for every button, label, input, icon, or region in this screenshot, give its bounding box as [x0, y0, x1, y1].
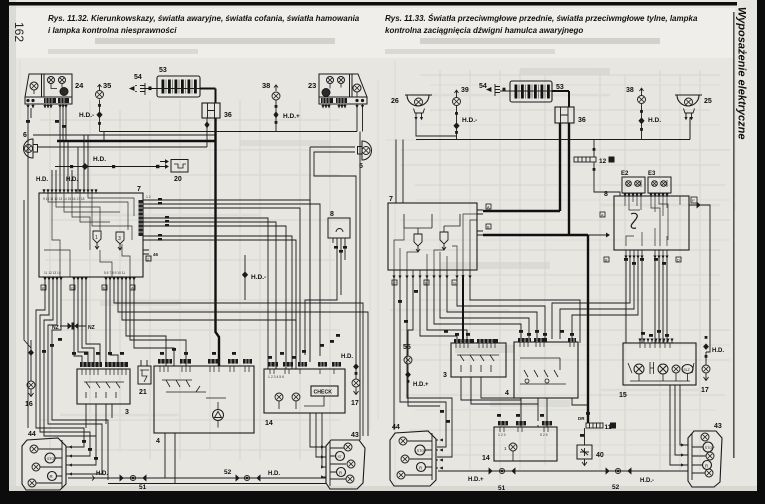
- svg-text:8: 8: [330, 211, 334, 218]
- relay 36: [202, 103, 232, 119]
- connector 54: [479, 83, 506, 96]
- lamp cluster 24: [25, 74, 84, 108]
- svg-text:12: 12: [599, 158, 607, 165]
- wire 23 drops: [357, 108, 363, 132]
- wire lamp5 feed: [310, 147, 356, 362]
- svg-text:1 2 3 4 5 6: 1 2 3 4 5 6: [268, 375, 284, 379]
- svg-text:53: 53: [556, 84, 564, 91]
- svg-text:H.D.: H.D.: [96, 471, 108, 477]
- svg-text:STOP: STOP: [705, 446, 715, 450]
- svg-text:E3: E3: [648, 171, 656, 177]
- svg-text:14: 14: [482, 455, 490, 462]
- svg-text:55: 55: [403, 344, 411, 351]
- control box 7: [388, 196, 483, 275]
- wires unit4/14 bottom to bus: [165, 132, 360, 484]
- wires into unit 7 top pins: [52, 135, 88, 193]
- instrument panel 15: [619, 339, 696, 399]
- svg-text:Wyposażenie elektryczne: Wyposażenie elektryczne: [736, 7, 748, 139]
- svg-text:16: 16: [25, 401, 33, 408]
- svg-text:21: 21: [139, 389, 147, 396]
- unit 14: [264, 362, 345, 427]
- svg-text:H.D.+: H.D.+: [283, 113, 300, 120]
- fog lamp 25: [675, 95, 712, 117]
- bulb 17: [701, 336, 724, 394]
- svg-text:17: 17: [351, 400, 359, 407]
- svg-text:R: R: [705, 464, 708, 469]
- wires bus to box 7 top: [396, 140, 403, 204]
- svg-text:39: 39: [461, 87, 469, 94]
- page frame: top rule: [9, 2, 737, 6]
- code boxes near 7 pins: [392, 204, 681, 285]
- wire 24 right drops: [60, 108, 66, 141]
- svg-text:25: 25: [704, 98, 712, 105]
- svg-text:G: G: [453, 281, 456, 285]
- svg-text:43: 43: [351, 432, 359, 439]
- wire fuse to relay (thick): [200, 89, 216, 104]
- svg-text:2: 2: [147, 258, 149, 262]
- thick wire into 3: [462, 275, 464, 343]
- svg-text:H.D.+: H.D.+: [468, 477, 484, 483]
- svg-text:R: R: [419, 466, 422, 471]
- svg-text:CHECK: CHECK: [314, 390, 333, 396]
- svg-text:SLZ: SLZ: [684, 368, 690, 372]
- svg-text:H.D.: H.D.: [648, 117, 661, 124]
- fog switch 3: [443, 339, 547, 404]
- thick feeds down from relay: [559, 123, 561, 211]
- svg-text:4: 4: [156, 438, 160, 445]
- H.D. labels row: [36, 177, 78, 183]
- bulb 17: [341, 354, 360, 407]
- 39/26 stems and H.D.: [416, 106, 477, 140]
- sidebar rule: [733, 12, 735, 458]
- NZ inline connector: [52, 323, 95, 332]
- wire 8 right out: [689, 197, 710, 352]
- wire 24 left drop: [28, 108, 31, 135]
- svg-text:14: 14: [265, 420, 273, 427]
- box 8 drop wires: [305, 243, 347, 355]
- thick feed wire down from relay: [216, 118, 220, 366]
- bulb 55: [403, 344, 440, 406]
- svg-text:3: 3: [443, 372, 447, 379]
- svg-text:44: 44: [392, 424, 400, 431]
- thick bus: [57, 140, 215, 142]
- wire code marks on fan: [158, 198, 169, 241]
- bulb 35: [96, 81, 112, 99]
- wires 7 bottom fan: [394, 275, 580, 457]
- wire 35 stem: [79, 100, 102, 132]
- wire fuse to relay (thick): [552, 91, 569, 107]
- ground 51: [92, 471, 147, 491]
- ground 52: [224, 469, 280, 481]
- unit 7 bottom-left fan to cluster 44: [36, 282, 108, 480]
- edge shading: [9, 0, 16, 504]
- svg-text:52: 52: [612, 484, 620, 491]
- svg-text:7: 7: [389, 196, 393, 203]
- ground 52: [606, 468, 654, 491]
- page frame: left black bar: [0, 0, 9, 504]
- left outer verticals: [24, 135, 31, 428]
- fan wires from unit 7 right connector: [152, 200, 320, 369]
- rear lamp cluster 43: [686, 423, 722, 487]
- svg-text:40: 40: [596, 452, 604, 459]
- svg-text:17: 17: [701, 387, 709, 394]
- switch symbol inside 7 (left): [404, 214, 432, 252]
- svg-text:20: 20: [174, 176, 182, 183]
- svg-text:H.D.: H.D.: [268, 471, 280, 477]
- svg-text:53: 53: [159, 67, 167, 74]
- wire link: [103, 132, 105, 142]
- svg-text:ST: ST: [338, 455, 342, 459]
- svg-text:E2: E2: [621, 171, 629, 177]
- svg-text:54: 54: [134, 74, 142, 81]
- fuse box 53: [500, 81, 564, 102]
- unit 14: [482, 421, 557, 462]
- svg-text:Rys. 11.32. Kierunkowskazy, św: Rys. 11.32. Kierunkowskazy, światła awar…: [48, 14, 360, 23]
- switch 3: [77, 362, 130, 436]
- svg-text:NZ: NZ: [52, 325, 59, 331]
- rear lamp cluster 44: [390, 424, 438, 486]
- page frame: right black bar: [757, 0, 765, 504]
- svg-text:H.D.-: H.D.-: [79, 112, 94, 119]
- top bus: [416, 113, 690, 140]
- switch symbol inside 7 (right): [440, 214, 460, 250]
- wires 15 bottom to 43: [670, 385, 686, 465]
- svg-text:15: 15: [619, 392, 627, 399]
- svg-text:43: 43: [714, 423, 722, 430]
- pin arrow marks right diagram: [392, 117, 693, 470]
- svg-text:54: 54: [479, 83, 487, 90]
- svg-text:H.D.: H.D.: [712, 348, 724, 354]
- connector 54: [130, 74, 152, 95]
- letter code boxes below unit 7: [41, 285, 135, 290]
- svg-text:11: 11: [605, 424, 612, 431]
- bulb 16: [25, 340, 35, 408]
- thick wires 7 to relay/8: [483, 210, 560, 212]
- svg-text:7: 7: [137, 186, 141, 193]
- wire lamp6 feed: [38, 147, 208, 193]
- svg-text:1: 1: [95, 235, 98, 241]
- svg-text:38: 38: [626, 87, 634, 94]
- box 20: [152, 160, 188, 184]
- bulb 38: [626, 87, 646, 104]
- wire bus2: [33, 134, 215, 136]
- svg-text:STOP: STOP: [47, 457, 57, 461]
- relay E3: [648, 171, 671, 197]
- unit 7 right interior wiring: [394, 214, 477, 270]
- svg-text:5 6 7 8 9 10 11: 5 6 7 8 9 10 11: [104, 271, 125, 275]
- unit 7 right connector pins: [143, 195, 159, 262]
- svg-text:DR: DR: [578, 416, 585, 421]
- bulb 38: [262, 81, 280, 100]
- svg-text:44: 44: [28, 431, 36, 438]
- svg-text:H.D.-: H.D.-: [640, 478, 654, 484]
- box 8: [328, 211, 350, 243]
- wires 8 bottom fan: [552, 255, 667, 343]
- svg-text:kontrolna zaciągnięcia dźwigni: kontrolna zaciągnięcia dźwigni hamulca a…: [385, 26, 583, 35]
- box 21: [138, 360, 151, 396]
- svg-text:NZ: NZ: [88, 325, 95, 331]
- svg-text:D: D: [677, 258, 680, 262]
- unit 7 bottom-mid fan to switch 3: [74, 282, 100, 362]
- relay thin drop with H.D. dot: [205, 118, 209, 147]
- switch unit 4: [505, 338, 578, 398]
- pin arrow marks left diagram: [26, 105, 364, 479]
- svg-text:H.D.: H.D.: [36, 177, 48, 183]
- svg-text:52: 52: [224, 469, 232, 476]
- svg-text:24: 24: [75, 81, 84, 90]
- svg-text:H.D.-: H.D.-: [251, 274, 266, 281]
- svg-text:H.D.: H.D.: [341, 354, 353, 360]
- wire bus1: [100, 131, 358, 133]
- svg-text:C: C: [393, 281, 396, 285]
- strip 11: [578, 416, 616, 431]
- control box 8: [604, 191, 689, 255]
- switch symbol 1 inside unit 7: [93, 231, 101, 249]
- 38 stem with H.D. dot: [274, 100, 300, 132]
- svg-text:G: G: [71, 286, 74, 290]
- svg-text:36: 36: [224, 112, 232, 119]
- wires E2 E3 to 8 top: [625, 167, 667, 172]
- fog lamp 26: [391, 95, 432, 117]
- svg-text:1 2 3: 1 2 3: [498, 433, 506, 437]
- svg-text:162: 162: [12, 22, 26, 42]
- 38 stem with H.D.: [639, 104, 661, 140]
- wire code marks scattered: [26, 120, 340, 460]
- bottom ground buses: [68, 478, 326, 484]
- svg-text:R: R: [339, 471, 342, 476]
- svg-text:38: 38: [262, 81, 270, 90]
- handbrake switch 40: [577, 428, 604, 466]
- control unit 7: [39, 186, 143, 282]
- svg-text:i lampka kontrolna niesprawnoś: i lampka kontrolna niesprawności: [48, 26, 177, 35]
- wires 4 bottom to 14: [521, 398, 588, 427]
- bulb 39: [453, 87, 469, 106]
- lamp cluster 23: [308, 74, 367, 108]
- fuse box 53: [145, 67, 200, 97]
- svg-text:35: 35: [103, 81, 111, 90]
- svg-text:1 2: 1 2: [146, 195, 151, 199]
- strip 12: [574, 140, 620, 197]
- svg-text:5 2 6: 5 2 6: [540, 433, 548, 437]
- svg-text:51: 51: [498, 485, 506, 492]
- svg-text:Rys. 11.33. Światła przeciwmgł: Rys. 11.33. Światła przeciwmgłowe przedn…: [385, 14, 698, 23]
- svg-text:51: 51: [139, 484, 147, 491]
- svg-text:3: 3: [118, 236, 121, 242]
- unit 7 interior wiring: [44, 193, 143, 277]
- H.D. bus to box 20: [55, 156, 152, 169]
- lamp 5: [358, 141, 372, 170]
- ground 51: [468, 468, 515, 492]
- unit 4: [154, 359, 254, 445]
- svg-text:6: 6: [23, 132, 27, 139]
- svg-text:8: 8: [604, 191, 608, 198]
- rear lamp cluster 44: [22, 431, 68, 490]
- svg-text:4: 4: [505, 390, 509, 397]
- switch symbol 3 inside unit 7: [116, 232, 124, 250]
- svg-text:11 12 13 14: 11 12 13 14: [44, 271, 61, 275]
- page frame: bottom black bar: [0, 491, 765, 504]
- bottom ground bus: [438, 470, 688, 472]
- svg-text:H.D.+: H.D.+: [413, 382, 429, 388]
- thick vertical to handbrake: [587, 235, 589, 423]
- svg-text:46: 46: [153, 252, 159, 257]
- relay 36: [555, 107, 586, 124]
- lamp 6: [23, 132, 38, 158]
- svg-text:3: 3: [125, 409, 129, 416]
- svg-text:STOP: STOP: [417, 449, 427, 453]
- svg-text:26: 26: [391, 98, 399, 105]
- svg-text:H.D.: H.D.: [93, 156, 106, 163]
- svg-text:36: 36: [578, 117, 586, 124]
- wire code marks scattered right: [398, 258, 669, 437]
- rear lamp cluster 43: [324, 432, 365, 489]
- H.D. label center: [243, 255, 267, 300]
- ghost showthrough texture: [40, 70, 730, 480]
- svg-text:H.D.-: H.D.-: [462, 117, 477, 124]
- svg-text:R: R: [50, 474, 53, 479]
- relay E2: [621, 171, 645, 197]
- svg-text:23: 23: [308, 81, 316, 90]
- unit 7 bottom-right fan: [106, 282, 368, 436]
